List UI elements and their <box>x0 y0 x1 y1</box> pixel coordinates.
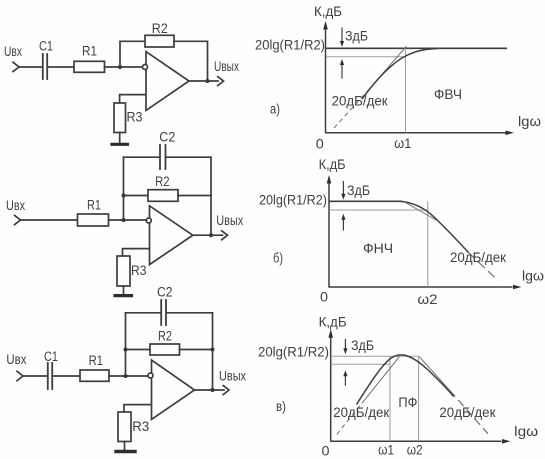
svg-text:Uвх: Uвх <box>6 352 26 367</box>
20dB/dec dashed tail (plot b) <box>469 253 499 281</box>
y-axis (plot b) <box>328 180 330 288</box>
op-amp U2 <box>150 206 193 265</box>
input arrow (a) <box>13 62 19 71</box>
svg-text:R2: R2 <box>152 21 168 36</box>
asymptote level line (plot a) <box>326 47 508 49</box>
wire non-inverting input (a) <box>120 95 146 103</box>
svg-text:R2: R2 <box>158 329 172 344</box>
ω2 vertical line (plot b) <box>427 201 429 287</box>
node R2 junction (b) <box>122 194 126 198</box>
y-axis (plot c) <box>330 334 332 442</box>
wire output (c) <box>195 389 225 391</box>
resistor R2 <box>145 35 174 47</box>
svg-text:Uвх: Uвх <box>4 44 22 59</box>
svg-text:ЗдБ: ЗдБ <box>345 29 368 44</box>
svg-text:20lg(R1/R2): 20lg(R1/R2) <box>255 38 325 53</box>
svg-text:ω2: ω2 <box>407 442 423 457</box>
svg-text:0: 0 <box>316 137 324 152</box>
output arrow (a) <box>218 77 224 86</box>
wire input to R1 (b) <box>21 219 78 221</box>
svg-text:R2: R2 <box>155 174 170 189</box>
svg-text:ω1: ω1 <box>394 136 411 151</box>
svg-text:C2: C2 <box>159 130 175 145</box>
x-axis (plot a) <box>326 132 507 134</box>
wire non-inverting input (c) <box>124 405 151 412</box>
wire R2 left (c) <box>126 349 151 351</box>
ω1 vertical line (plot a) <box>405 48 407 133</box>
3dB down arrow (plot b) <box>342 181 344 195</box>
3dB level line (plot b) <box>329 209 428 211</box>
capacitor C1 <box>42 54 44 79</box>
resistor R3 (c) <box>118 412 131 442</box>
svg-text:20lg(R1/R2): 20lg(R1/R2) <box>259 192 327 207</box>
wire output (a) <box>189 80 218 82</box>
x-axis (plot c) <box>331 440 502 442</box>
wire R2 right (c) <box>180 349 213 351</box>
svg-text:К,дБ: К,дБ <box>314 4 342 19</box>
wire R1 to op-amp (b) <box>109 219 147 221</box>
svg-text:lgω: lgω <box>522 269 544 284</box>
node output (a) <box>206 79 210 83</box>
svg-text:C2: C2 <box>157 285 173 300</box>
svg-text:20дБ/дек: 20дБ/дек <box>333 405 389 420</box>
wire feedback right vertical (b) <box>210 157 212 235</box>
svg-text:R1: R1 <box>89 353 104 368</box>
node input junction (b) <box>122 218 126 222</box>
output arrow (c) <box>223 386 229 395</box>
capacitor C1 (c) <box>47 363 49 389</box>
wire feedback right vertical (c) <box>212 313 214 390</box>
svg-text:0: 0 <box>322 443 330 458</box>
svg-text:20дБ/дек: 20дБ/дек <box>450 250 506 265</box>
wire C1 to R1 (c) <box>53 375 80 377</box>
svg-text:а): а) <box>270 102 280 117</box>
wire feedback right (a) <box>174 41 208 81</box>
resistor R1 <box>74 61 105 72</box>
falling 20dB/dec solid segment (plot c) <box>419 356 450 390</box>
rising 20dB/dec dashed segment (plot c) <box>337 402 363 434</box>
svg-text:Uвых: Uвых <box>214 59 239 74</box>
3dB up arrow (plot c) <box>344 376 346 386</box>
resistor R1 (c) <box>80 370 109 381</box>
svg-text:ПФ: ПФ <box>398 395 417 410</box>
20dB/dec tangent segment (plot b) <box>405 202 438 221</box>
3dB up arrow (plot a) <box>341 64 343 79</box>
wire R2 right (b) <box>178 195 211 197</box>
node input junction (a) <box>118 65 122 69</box>
svg-text:Uвх: Uвх <box>6 198 25 213</box>
20dB/dec asymptote solid segment (plot a) <box>368 46 407 90</box>
svg-text:20дБ/дек: 20дБ/дек <box>439 405 495 420</box>
3dB down arrow (plot a) <box>341 28 343 43</box>
svg-text:R3: R3 <box>127 110 143 125</box>
svg-text:R1: R1 <box>87 198 101 213</box>
svg-text:R1: R1 <box>82 44 97 59</box>
wire feedback left vertical (c) <box>125 313 127 376</box>
input arrow (b) <box>15 215 21 224</box>
resistor R2 (b) <box>148 190 178 202</box>
svg-text:20lg(R1/R2): 20lg(R1/R2) <box>258 345 329 360</box>
svg-text:б): б) <box>273 251 283 266</box>
ground (c) <box>116 450 135 453</box>
op-amp U3 <box>152 360 195 419</box>
svg-text:lgω: lgω <box>518 114 541 129</box>
svg-text:в): в) <box>276 399 286 414</box>
capacitor C2 (c) <box>160 300 162 325</box>
ground (a) <box>112 143 128 146</box>
svg-text:ω2: ω2 <box>418 292 438 307</box>
wire C2 left (b) <box>124 156 160 158</box>
resistor R3 (b) <box>117 256 130 286</box>
ω1 vertical line (plot c) <box>389 356 391 441</box>
svg-text:ЗдБ: ЗдБ <box>347 183 370 198</box>
input arrow (c) <box>17 371 23 380</box>
svg-text:20дБ/дек: 20дБ/дек <box>332 94 388 109</box>
wire non-inverting input (b) <box>123 249 150 256</box>
wire input to C1 <box>19 66 42 68</box>
wire feedback left (a) <box>120 41 145 67</box>
y-axis (plot a) <box>325 26 327 133</box>
node output (b) <box>209 233 213 237</box>
svg-text:C1: C1 <box>44 349 58 364</box>
3dB level line (plot a) <box>326 56 406 58</box>
response curve (plot b) <box>400 201 469 252</box>
3dB down arrow (plot c) <box>344 339 346 349</box>
svg-text:ФВЧ: ФВЧ <box>434 87 462 102</box>
wire R1 to op-amp (c) <box>109 375 148 377</box>
op-amp U1 <box>146 52 189 111</box>
wire input to C1 (c) <box>23 375 47 377</box>
wire R1 to op-amp <box>105 66 143 68</box>
node R2 left junction (c) <box>124 348 128 352</box>
wire R3 to ground (b) <box>123 286 125 294</box>
wire C2 right (b) <box>166 156 211 158</box>
wire C2 right (c) <box>167 312 213 314</box>
wire C2 left (c) <box>126 312 161 314</box>
response curve (plot c) <box>357 355 454 404</box>
svg-text:R3: R3 <box>132 419 149 434</box>
resistor R1 (b) <box>78 214 109 226</box>
capacitor C2 (b) <box>159 145 161 169</box>
svg-text:lgω: lgω <box>514 424 538 439</box>
resistor R3 <box>114 103 126 133</box>
node input junction (c) <box>124 374 128 378</box>
falling 20dB/dec dashed segment (plot c) <box>450 391 488 434</box>
x-axis (plot b) <box>329 286 513 288</box>
3dB level line (plot c) <box>331 363 390 365</box>
wire R3 to ground <box>119 133 121 144</box>
ω2 vertical line (plot c) <box>418 356 420 441</box>
wire R2 left (b) <box>124 195 149 197</box>
asymptote level line (plot b) <box>329 200 402 202</box>
output arrow (b) <box>222 231 228 240</box>
node R2 right junction (c) <box>211 348 215 352</box>
svg-text:К,дБ: К,дБ <box>319 157 346 172</box>
wire output (b) <box>193 234 223 236</box>
svg-text:Uвых: Uвых <box>219 368 246 383</box>
svg-text:К,дБ: К,дБ <box>319 314 347 329</box>
node output (c) <box>211 388 215 392</box>
svg-text:ω1: ω1 <box>378 442 394 457</box>
svg-text:R3: R3 <box>131 263 147 278</box>
svg-text:C1: C1 <box>39 39 53 54</box>
peak level line (plot c) <box>331 355 419 357</box>
rising 20dB/dec solid segment (plot c) <box>363 356 400 402</box>
resistor R2 (c) <box>150 344 180 355</box>
20dB/dec asymptote dashed segment (plot a) <box>334 91 368 129</box>
response curve (plot a) <box>362 49 438 100</box>
svg-text:Uвых: Uвых <box>216 213 243 228</box>
3dB up arrow (plot b) <box>342 219 344 231</box>
wire C1 to R1 <box>48 66 74 68</box>
wire feedback left vertical (b) <box>123 157 125 220</box>
svg-text:ФНЧ: ФНЧ <box>363 241 393 256</box>
wire R3 to ground (c) <box>124 442 126 451</box>
svg-text:ЗдБ: ЗдБ <box>351 338 374 353</box>
svg-text:0: 0 <box>320 290 328 305</box>
ground (b) <box>115 294 132 297</box>
